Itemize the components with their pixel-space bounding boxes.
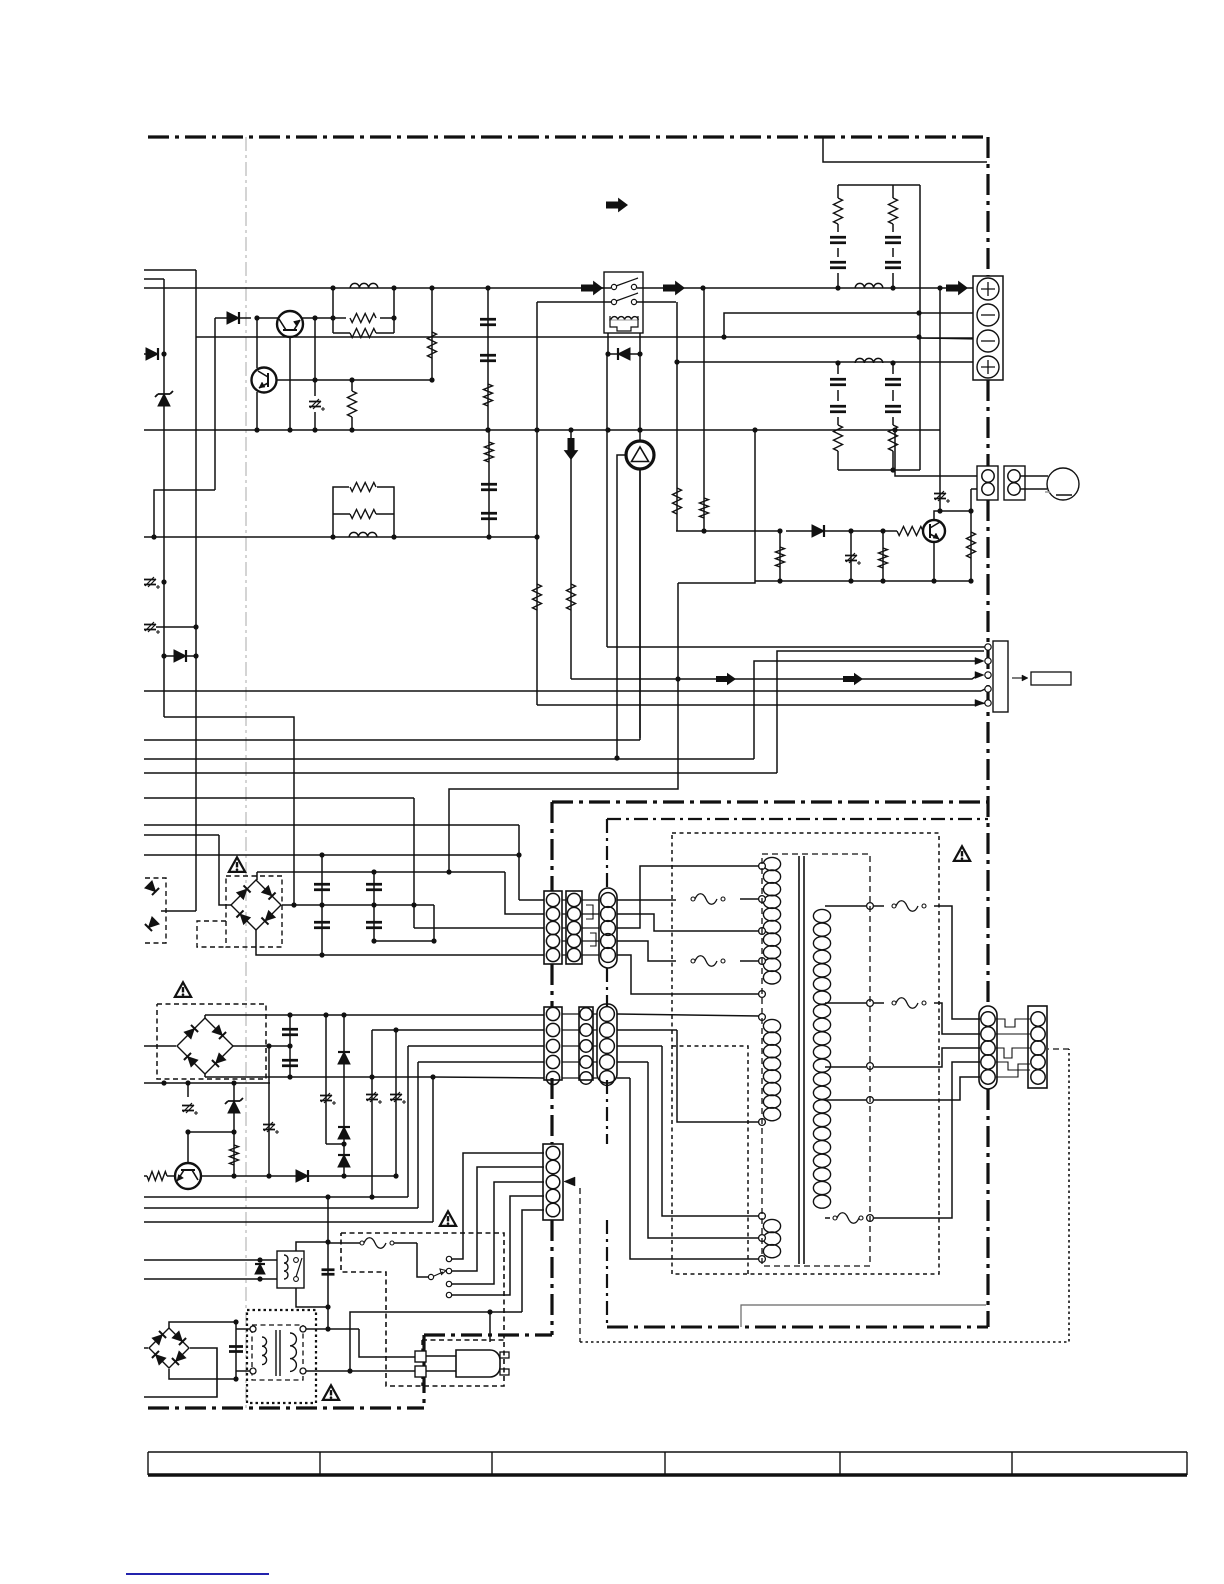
wire y1305	[741, 1305, 986, 1327]
bus y1222	[144, 1221, 433, 1223]
footer link line	[126, 1573, 269, 1575]
step wire y717	[164, 717, 294, 905]
BR2 input wire	[144, 1045, 176, 1047]
revision table	[148, 1452, 1187, 1475]
diode D6	[812, 525, 824, 537]
bridge rectifier BR1	[231, 880, 281, 930]
wire y789 jog	[449, 679, 678, 872]
power rail y430	[144, 429, 940, 431]
wire bridge left	[161, 910, 196, 912]
relay bottom wire	[296, 1288, 328, 1307]
jack wires	[1020, 475, 1048, 477]
relay RY2	[277, 1251, 304, 1288]
zobel network ch1 (R+C columns)	[838, 184, 920, 186]
wire coil to connector	[606, 354, 608, 647]
relay contact wires	[595, 287, 611, 289]
BR3 AC2 wire	[144, 1348, 217, 1397]
transformer T2	[247, 1310, 316, 1403]
BR3 DC wires	[169, 1322, 236, 1328]
headphone connector CN2	[977, 466, 998, 500]
wire x678 branch	[677, 583, 679, 680]
inductor L3	[349, 532, 377, 537]
connector CN6	[543, 1144, 563, 1220]
zener chain x234	[233, 1083, 235, 1176]
partial bridge left edge	[145, 878, 166, 943]
T1 primary winding lower	[763, 1219, 780, 1232]
AC cord dashed box	[422, 1339, 504, 1341]
speaker terminal connector CN1	[973, 276, 1003, 380]
headphone jack J1	[1047, 468, 1079, 500]
capacitor C10	[144, 577, 160, 589]
transformer T1 primary winding upper	[763, 857, 780, 870]
resistor R11	[970, 511, 972, 581]
zobel common vertical x920	[919, 185, 921, 470]
capacitor C20	[939, 288, 941, 511]
wire vertical x432	[431, 288, 433, 380]
arrow to terminal	[946, 281, 968, 296]
connector CN4c	[599, 888, 617, 968]
connector CN3	[993, 641, 1008, 712]
arrow to relay	[581, 281, 603, 296]
protection detector U1	[626, 441, 654, 469]
bus wire y835	[144, 834, 219, 836]
diode D4	[215, 317, 251, 319]
regulator Q5	[175, 1163, 201, 1189]
mute ground bus	[755, 580, 971, 582]
connector CN5b	[579, 1007, 593, 1080]
bus wire y855	[144, 854, 519, 856]
wire CN5 pin3	[408, 1045, 544, 1047]
wire stub y279	[144, 278, 164, 280]
BR2 output right	[233, 1045, 290, 1047]
wires CN4c to T1 primary	[617, 899, 676, 901]
capacitor C11	[144, 622, 160, 634]
arrow after relay	[663, 281, 685, 296]
mute circuit	[676, 488, 678, 531]
transistor Q4	[923, 520, 945, 542]
diode D7	[296, 1170, 308, 1182]
chain x372	[371, 1030, 373, 1197]
T1 secondary taps	[867, 903, 874, 910]
connector CN8	[979, 1006, 997, 1089]
AC plug	[426, 1355, 456, 1357]
warning triangle W4	[440, 1211, 456, 1226]
wire vertical x215	[214, 318, 216, 490]
rail y1176	[201, 1175, 396, 1177]
wire to CN4 pin2	[505, 872, 544, 914]
T1 primary taps upper	[759, 863, 766, 870]
arrow down x571	[570, 430, 572, 679]
bus wire y872 from bridge top	[256, 872, 258, 880]
wires CN6 pins from selector	[452, 1153, 544, 1259]
inductor L1	[855, 283, 883, 288]
T1 secondary winding	[813, 909, 830, 922]
wire x640 to protection	[639, 354, 641, 441]
cap x270	[268, 1046, 270, 1176]
connector CN5a	[544, 1007, 562, 1080]
caps x290	[289, 1015, 291, 1077]
wire x537 to CN3 pin5	[537, 703, 985, 705]
wire CN5 pin4	[418, 1061, 544, 1063]
bus wire y759	[144, 758, 754, 760]
bridge rectifier BR2	[177, 1018, 233, 1074]
connector CN5c	[597, 1004, 617, 1083]
speaker return wire y337	[196, 336, 724, 338]
wire x414 down	[413, 798, 415, 928]
bridge output wire	[282, 904, 434, 906]
wire vertical x196	[195, 270, 197, 911]
transistor Q2	[252, 368, 277, 393]
wires to T1 lower primary	[677, 1030, 759, 1122]
wire relay2 to R+	[676, 302, 678, 488]
relay coil leads	[607, 333, 609, 354]
zobel network ch2	[837, 363, 839, 374]
chain x326	[325, 1015, 327, 1144]
wire stub y270	[144, 269, 196, 271]
resistor R13	[882, 531, 884, 581]
T1 core	[798, 856, 800, 1264]
wire to jack	[940, 510, 971, 512]
T1 primary taps lower	[759, 1014, 766, 1021]
dashed box T1	[762, 854, 870, 1266]
resistor x571	[567, 584, 576, 610]
wire y941	[374, 940, 434, 942]
BR2 - rail y1077	[204, 1074, 206, 1077]
bus wire y825	[144, 824, 519, 826]
bridge rectifier BR3	[149, 1328, 189, 1368]
small arrowheads at CN3	[975, 658, 984, 665]
rail y1083	[144, 1082, 270, 1084]
resistor R4	[351, 380, 353, 391]
warning triangle W1	[229, 857, 245, 872]
resistor R20	[147, 1172, 167, 1181]
AC dashed box	[341, 1233, 504, 1386]
bus y1197	[144, 1196, 408, 1198]
crossover wires CN4b-CN4c	[586, 905, 593, 919]
arrow top (signal flow)	[606, 198, 628, 213]
cap x236	[235, 1322, 237, 1379]
bus wire y691 to CN3 pin4	[144, 690, 981, 692]
wire relay y1279	[144, 1278, 277, 1280]
plug wires	[359, 1329, 415, 1357]
page fold line (light gray)	[245, 137, 247, 1412]
speaker wire L+ y288	[144, 287, 604, 289]
wire Q1 base	[257, 317, 278, 319]
warning triangle W2	[954, 846, 970, 861]
chain x396	[395, 1030, 397, 1176]
capacitor C12	[314, 318, 316, 396]
BR2 + rail y1015	[204, 1015, 206, 1018]
zener D2	[158, 394, 170, 406]
diode D1	[144, 353, 158, 355]
wire to CN4 pin4	[433, 905, 435, 941]
warning triangle W5	[323, 1385, 339, 1400]
arrow marker at CN6	[564, 1177, 575, 1186]
transistor Q1	[277, 311, 303, 337]
T1 secondary wiring right	[874, 905, 884, 907]
wire mute left	[754, 430, 756, 581]
wire Q1 right	[302, 317, 346, 319]
BR3 input	[144, 1347, 148, 1349]
relay RY1 coil	[611, 317, 638, 320]
RC chain x489 ch2	[488, 430, 490, 537]
selector common wire	[417, 1243, 428, 1277]
cap x328	[327, 1242, 329, 1329]
inductor L4	[350, 283, 378, 288]
diode D3	[164, 655, 196, 657]
fuse F1	[328, 1242, 360, 1244]
bus y1208	[144, 1207, 418, 1209]
wire step below top border	[823, 138, 987, 162]
resistor R10	[897, 527, 923, 536]
capacitor C21	[850, 531, 852, 581]
Q4 emitter	[933, 542, 935, 581]
connector CN9	[1028, 1006, 1047, 1088]
AC plug terminals	[415, 1351, 426, 1362]
Q5 top	[187, 1132, 189, 1163]
wires CN5c right	[617, 1014, 759, 1016]
inductor L2	[855, 358, 883, 363]
wire x519 down	[518, 825, 520, 900]
wire CN3 pin1	[607, 646, 985, 648]
damping network ch2 R+L	[144, 536, 537, 538]
dotted box remote	[580, 1049, 1069, 1342]
wire AC to selector	[350, 1312, 522, 1371]
resistor R12	[779, 531, 781, 581]
wire x215 bottom	[154, 490, 215, 537]
section border lower-right inner	[607, 818, 988, 820]
wire to CN4 pin3	[414, 927, 544, 929]
connector CN4a	[544, 891, 562, 964]
damping network R2 R3 ch1	[332, 288, 334, 333]
wire x219 to bridge	[219, 835, 231, 905]
sheet border dash-dot top	[148, 135, 988, 138]
T1 secondary bottom w/ fuse	[825, 1217, 830, 1219]
wire to headphone connector	[895, 430, 977, 476]
wire Q2 collector	[277, 379, 432, 381]
bus wire y740	[144, 739, 640, 741]
wire y955 to CN4 pin5	[322, 954, 544, 956]
crossover wires CN8-CN9	[996, 1019, 1030, 1027]
label box	[1012, 677, 1026, 679]
bus wire y798	[144, 797, 414, 799]
speaker wire R+ y362	[674, 359, 679, 364]
zobel ch2 join	[838, 469, 920, 471]
bus wire y773	[144, 772, 777, 774]
RC chain x488 ch1	[487, 288, 489, 430]
connector CN4b	[566, 891, 582, 964]
wire Q5 base link	[188, 1131, 234, 1133]
diode D5 relay	[605, 351, 610, 356]
warning triangle W3	[175, 982, 191, 997]
section border lower-right outer	[552, 800, 988, 803]
T2 right taps	[306, 1328, 359, 1330]
relay RY1	[604, 272, 643, 333]
dashed box transformer section	[672, 833, 939, 1274]
wire x328 to relay	[327, 1197, 329, 1242]
T1 primary winding middle	[763, 1019, 780, 1032]
wire CN5 pin5	[433, 1077, 544, 1078]
Q4 collector	[934, 511, 940, 520]
selector switch S1	[428, 1274, 433, 1279]
resistor x537	[536, 302, 538, 705]
wire vertical x164	[163, 279, 165, 717]
arrowed wire y679 to CN3 pin3	[571, 677, 975, 679]
sheet border dash-dot right	[986, 137, 989, 276]
wire relay y1260	[144, 1259, 277, 1261]
relay top wire	[296, 1242, 328, 1251]
dashed partition	[672, 1046, 748, 1274]
diode chain x344	[343, 1015, 345, 1176]
wire CN5 pin2	[372, 1029, 544, 1031]
smoothing caps C30 C31	[256, 930, 322, 955]
diode D8	[255, 1264, 265, 1274]
